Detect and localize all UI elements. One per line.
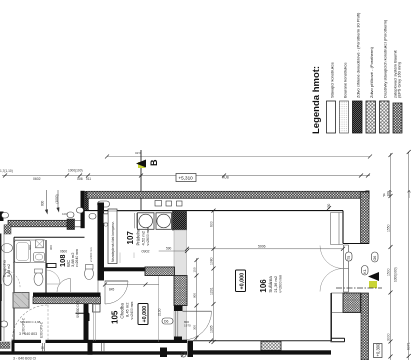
capsule Z3: [77, 208, 84, 214]
wc 108 toilet second: [34, 273, 43, 286]
svg-text:3000: 3000: [386, 333, 390, 341]
svg-text:1000(900): 1000(900): [394, 267, 398, 282]
legend swatch 1: stavajici konstrukce: [327, 101, 336, 133]
svg-text:300: 300: [193, 325, 197, 330]
legend swatch 4: zdivo prickove Porotherm: [366, 101, 376, 133]
svg-text:011: 011: [86, 177, 91, 181]
balcony door arc upper: [320, 246, 343, 269]
left section wall hatch block: [67, 219, 75, 230]
right outer dim line 2: [408, 152, 410, 360]
capsule Z4: [89, 214, 96, 220]
balcony door arc lower: [320, 269, 343, 292]
door arc wc: [57, 279, 71, 293]
door 105-106 leaf and arc: [183, 310, 212, 312]
wc 108 door arc: [46, 270, 60, 284]
room label 107: [126, 228, 150, 254]
door 105-106 frame lines: [176, 311, 178, 337]
left edge black wall top: [0, 212, 4, 222]
chodba dim line horizontal: [105, 284, 159, 286]
corner vertical black wall: [81, 191, 85, 228]
capsule D6: [162, 318, 173, 324]
svg-text:v=2400 mm: v=2400 mm: [130, 302, 134, 320]
lower right corner wall stub: [331, 338, 345, 342]
svg-text:0I: 0I: [41, 346, 44, 350]
wall stub above left rooms: [76, 313, 90, 321]
svg-text:+0,000: +0,000: [240, 273, 246, 290]
right wall opening head: [343, 243, 369, 245]
svg-text:Nezateplená část kompenz.: Nezateplená část kompenz.: [111, 221, 115, 262]
svg-text:1335: 1335: [209, 325, 213, 333]
partition strip top dark hatch: [173, 212, 187, 231]
koupelna wc oval: [3, 273, 12, 286]
room label koupelna: [2, 259, 12, 277]
capsule O6: [372, 252, 379, 262]
right exterior wall insulation band: [361, 192, 370, 244]
svg-text:0902: 0902: [142, 250, 150, 254]
koupelna dashed swing: [4, 270, 20, 288]
wc 108 washbasin: [34, 253, 45, 262]
svg-text:1970: 1970: [184, 324, 191, 328]
small square tags on top wall: [155, 201, 162, 207]
svg-text:4,52 m2: 4,52 m2: [141, 230, 146, 245]
leader arrow 1000: [57, 190, 59, 210]
big dashed door arc bottom left: [12, 305, 48, 341]
svg-text:Stávající konstrukce: Stávající konstrukce: [330, 61, 335, 98]
top dimension line: [2, 175, 370, 177]
balcony door leaves: [344, 245, 349, 292]
level box +0,000 room 105: [138, 304, 148, 325]
svg-text:1080: 1080: [209, 257, 213, 265]
svg-text:T5: T5: [347, 256, 351, 260]
svg-text:+5,310: +5,310: [179, 176, 194, 181]
chodba niche rect: [93, 304, 101, 312]
leader arrow 800: [46, 190, 48, 212]
svg-text:600: 600: [28, 245, 32, 250]
svg-text:590: 590: [166, 247, 172, 251]
capsule Z2: [67, 212, 74, 218]
svg-text:O6: O6: [373, 256, 377, 261]
svg-text:5,48 m2: 5,48 m2: [7, 264, 11, 277]
svg-text:SV 300 DP1: SV 300 DP1: [76, 300, 80, 318]
wall 107/105 black horizontal: [101, 267, 146, 271]
svg-text:v=2600 mm: v=2600 mm: [146, 228, 150, 246]
gray infill block left: [13, 293, 29, 309]
svg-text:v=2400 mm: v=2400 mm: [89, 247, 93, 262]
svg-text:(1000): (1000): [55, 194, 59, 203]
wc 108 toilet: [85, 268, 94, 280]
washer appliance: [138, 213, 155, 230]
svg-text:E30 DP3-C: E30 DP3-C: [40, 321, 44, 338]
capsule K1: [362, 266, 369, 276]
door jamb black block: [174, 306, 183, 312]
wall 107/105 hatched bar: [145, 267, 175, 276]
small dim marks in 107 area: [120, 253, 134, 264]
room label 108: [47, 249, 79, 267]
bottom wall joints: [12, 340, 15, 353]
svg-text:K1: K1: [363, 269, 367, 273]
svg-text:900: 900: [49, 245, 53, 250]
svg-text:5006: 5006: [258, 245, 266, 249]
right outer dim line 1: [390, 153, 392, 360]
diameter symbol: [181, 352, 186, 357]
wc bottom wall black bar: [33, 293, 101, 297]
room106 bottom wall line: [193, 340, 331, 342]
svg-text:1000(100): 1000(100): [68, 169, 83, 173]
room106 bottom band lower: [193, 350, 331, 354]
koupelna bathtub: [15, 241, 31, 263]
left section wall inner face: [14, 236, 85, 238]
svg-text:(EPS Grey 160 mm): (EPS Grey 160 mm): [397, 61, 402, 98]
door 107-105 leaf and arc: [105, 280, 128, 282]
room 106 vertical dim line: [213, 211, 215, 342]
svg-text:160: 160: [386, 191, 390, 197]
chodba reference line: [158, 276, 160, 342]
lower right insulation strip: [361, 293, 369, 360]
legend swatch 5: dozdivky stavajicich konstrukci: [380, 101, 390, 133]
lower right crosshatch infill block: [343, 293, 361, 313]
capsule T1: [98, 201, 110, 207]
room label 105: [111, 302, 135, 324]
wall 105 left vertical black: [84, 304, 89, 342]
kitchen wall black vertical: [98, 203, 105, 281]
room106 bottom infill hatch patch: [261, 341, 281, 350]
corner hatch bar at band start: [85, 191, 89, 211]
svg-text:1231: 1231: [209, 287, 213, 295]
svg-text:845: 845: [109, 288, 115, 292]
svg-text:v=2640 mm: v=2640 mm: [75, 249, 79, 267]
wall 105/106 hatched vertical: [174, 276, 187, 306]
svg-text:2130: 2130: [158, 308, 162, 316]
svg-text:006: 006: [77, 177, 83, 181]
svg-text:1550: 1550: [386, 224, 390, 232]
door 107-105 jambs: [98, 281, 105, 305]
svg-text:Zdivo příčkové - (Porotherm): Zdivo příčkové - (Porotherm): [369, 46, 374, 98]
right wall interior face: [342, 211, 344, 244]
kitchen sink small: [104, 214, 109, 223]
wc bottom wall hatch band: [33, 297, 101, 304]
room label 106: [259, 275, 283, 293]
bottom wall band lower-left: [0, 351, 187, 354]
svg-text:D6: D6: [164, 320, 168, 324]
svg-text:106: 106: [259, 279, 268, 293]
svg-text:02%: 02%: [135, 151, 141, 155]
legend: Legenda hmot: [311, 12, 402, 134]
svg-text:+0,300: +0,300: [376, 343, 381, 357]
svg-text:HUB: HUB: [222, 176, 229, 180]
svg-text:Zdivo cihlené dvouděrové - (Po: Zdivo cihlené dvouděrové - (Porotherm 30…: [356, 12, 361, 98]
svg-text:0602: 0602: [33, 177, 41, 181]
left exterior insulation block bottom: [0, 342, 10, 349]
left wall inner face vertical: [13, 237, 15, 341]
svg-text:800: 800: [41, 200, 45, 206]
left section top wall insulation band: [8, 220, 67, 227]
partition strip light gray: [174, 230, 187, 342]
bottom door lines: [43, 343, 105, 351]
svg-text:v=2600 mm: v=2600 mm: [279, 275, 283, 293]
room 106 interior dim line: [187, 248, 343, 250]
capsule D4: [1, 321, 8, 327]
window gap lines: [75, 221, 81, 227]
svg-text:107: 107: [126, 231, 135, 245]
top exterior wall insulation band (middle+right section): [87, 191, 366, 198]
door jamb black block lower: [174, 337, 182, 343]
svg-text:1,7(1,10): 1,7(1,10): [0, 169, 13, 173]
section marker B bottom arrow: [369, 281, 377, 288]
wc 108 fixtures: crossed box: [36, 240, 44, 248]
counter edge double line: [135, 213, 137, 228]
svg-text:0600: 0600: [60, 250, 67, 254]
bottom wall band upper-left: [12, 340, 41, 343]
svg-text:E30 DP3-C: E30 DP3-C: [22, 317, 26, 334]
svg-text:900: 900: [193, 293, 197, 298]
capsule T: [346, 252, 353, 261]
legend swatch 3: zdivo cihelne dvouderove Porotherm 30 Profi: [353, 101, 363, 133]
svg-text:3 - 640 B03 CI: 3 - 640 B03 CI: [13, 357, 36, 360]
dryer appliance: [156, 213, 172, 230]
legend swatch 6: zateplovaci system: [393, 103, 402, 133]
top-right insulation corner block: [366, 191, 370, 199]
window niche lines right: [331, 213, 344, 245]
shaft label box: [108, 209, 117, 264]
chodba dim line vertical: [196, 258, 198, 340]
capsule Z1: [2, 213, 9, 219]
svg-text:Koupelna: Koupelna: [2, 259, 7, 277]
svg-text:6071: 6071: [407, 342, 411, 350]
koupelna partition vertical: [45, 240, 47, 293]
section line B top: [140, 150, 142, 211]
svg-text:+0,000: +0,000: [142, 306, 148, 323]
svg-text:Dozdívky stávajících konstrukc: Dozdívky stávajících konstrukcí (Porothe…: [383, 19, 388, 98]
svg-text:8,45 m2: 8,45 m2: [125, 302, 130, 317]
svg-text:600: 600: [209, 221, 213, 227]
lower right inner wall line: [330, 293, 332, 341]
legend swatch 2: bourane konstrukce: [340, 101, 349, 133]
svg-text:B: B: [149, 159, 159, 166]
koupelna divider line: [13, 261, 46, 263]
left edge wall segment lower: [0, 284, 2, 301]
left edge insulation block: [4, 225, 11, 234]
top wall interior face line: [85, 210, 344, 212]
level box +5,310: [176, 174, 196, 182]
section dash-dot line bottom: [336, 287, 382, 289]
top reference line: [107, 156, 370, 158]
counter edge lines: [103, 211, 137, 214]
svg-text:1500: 1500: [386, 268, 390, 276]
level box +0,300 bottom right: [374, 344, 383, 358]
svg-text:Legenda hmot:: Legenda hmot:: [311, 66, 322, 134]
left exterior wall outer face: [0, 234, 1, 342]
svg-text:21,36 m2: 21,36 m2: [273, 275, 278, 292]
svg-text:105: 105: [111, 310, 120, 324]
svg-text:Bourané konstrukce: Bourané konstrukce: [343, 62, 348, 98]
svg-text:430: 430: [327, 203, 331, 209]
svg-text:150: 150: [193, 267, 197, 272]
koupelna fixtures: washbasin oval: [2, 244, 13, 253]
level box +0,000 room 106: [236, 270, 246, 292]
